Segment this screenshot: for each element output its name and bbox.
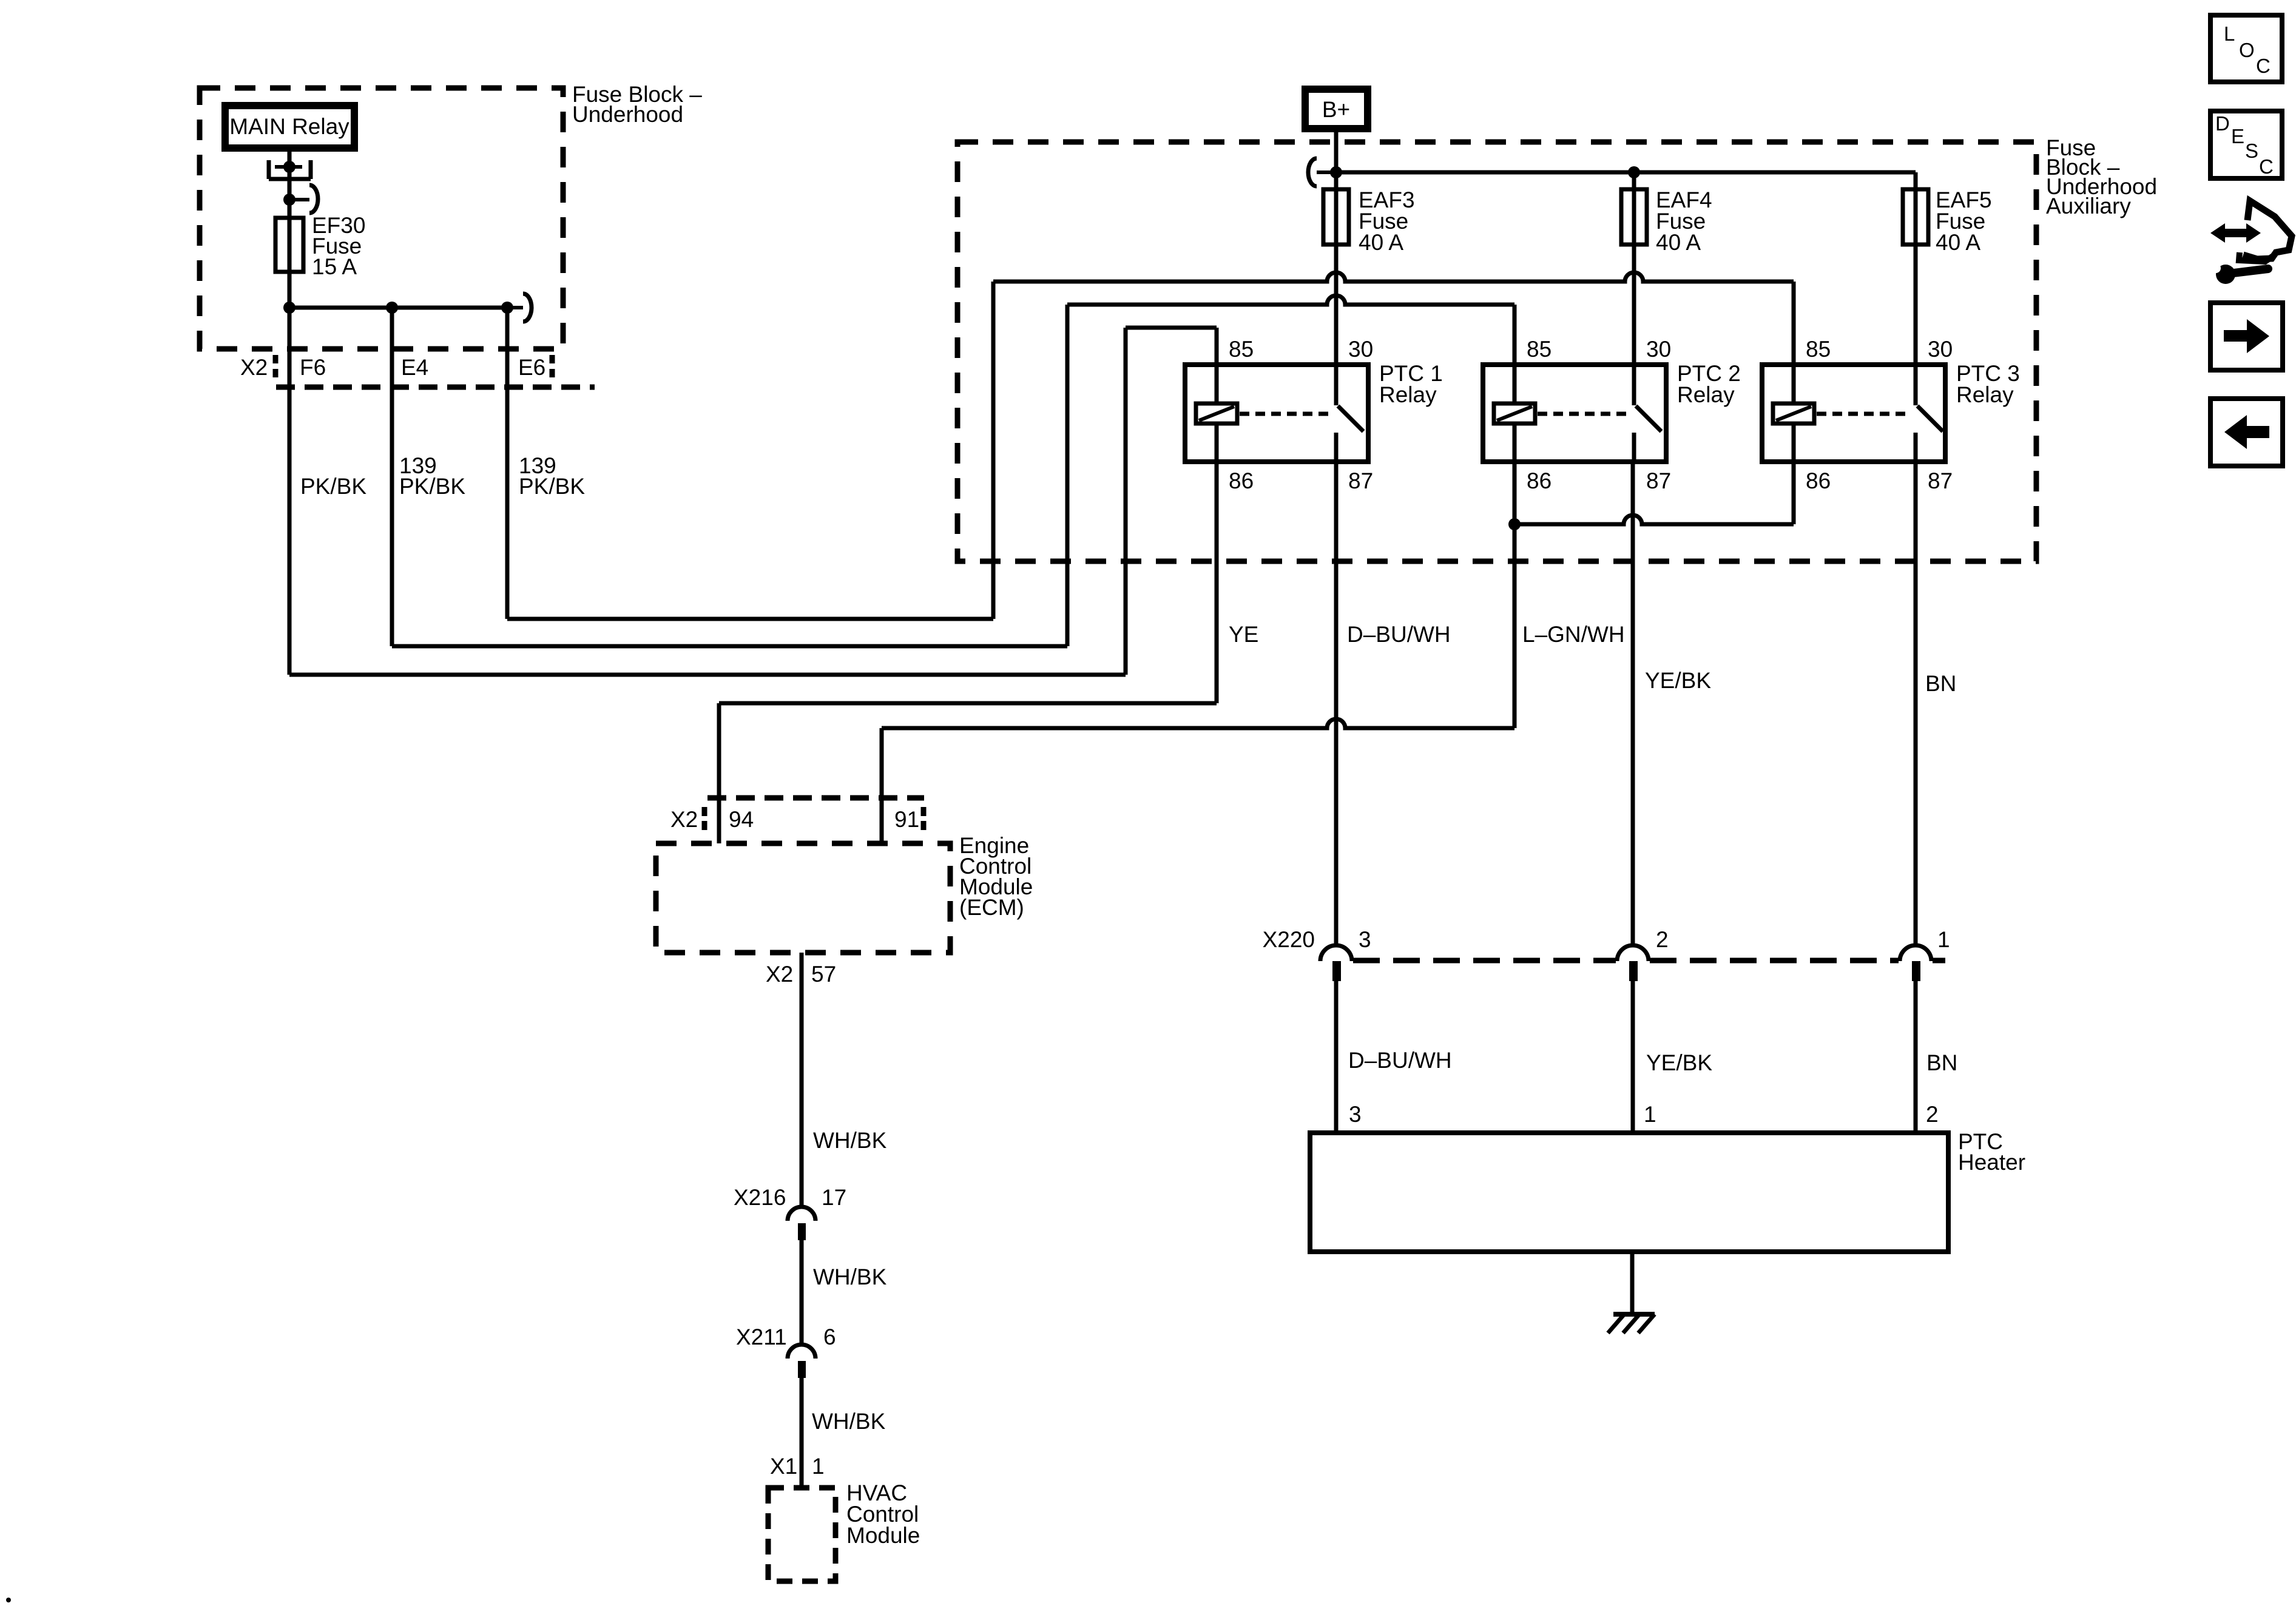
connector X2 left tick bbox=[273, 355, 279, 381]
svg-text:WH/BK: WH/BK bbox=[813, 1264, 887, 1289]
svg-text:17: 17 bbox=[822, 1185, 846, 1210]
svg-text:PK/BK: PK/BK bbox=[300, 474, 366, 499]
svg-text:D–BU/WH: D–BU/WH bbox=[1347, 622, 1451, 647]
relay terminal prongs bbox=[269, 160, 311, 179]
fuse block underhood dashed box bbox=[200, 88, 563, 349]
node B+ branch bbox=[1330, 166, 1342, 178]
relay PTC1 switch bbox=[1334, 365, 1339, 405]
wire stub to inline connector E6 bbox=[507, 306, 523, 309]
connector X2 (ECM) left tick bbox=[702, 807, 707, 831]
wire EAF5 drop bbox=[1914, 172, 1918, 365]
relay PTC1 coil bbox=[1215, 365, 1219, 403]
svg-text:YE/BK: YE/BK bbox=[1645, 668, 1711, 693]
svg-text:91: 91 bbox=[894, 807, 919, 832]
relay PTC2 coil bbox=[1513, 365, 1517, 403]
fuse EAF5 40A bbox=[1903, 189, 1928, 245]
svg-text:1: 1 bbox=[1937, 927, 1950, 952]
svg-text:(ECM): (ECM) bbox=[959, 895, 1024, 920]
MAIN Relay box K bbox=[225, 106, 354, 148]
svg-text:30: 30 bbox=[1646, 337, 1671, 362]
svg-text:YE/BK: YE/BK bbox=[1646, 1050, 1712, 1075]
wire YE horizontal to ECM 94 bbox=[719, 701, 1217, 706]
wire coil feed line to PTC1 85 bbox=[1126, 326, 1217, 330]
wire L-GN/WH from PTC2 86 bbox=[1513, 462, 1517, 728]
wire E4 horizontal run bbox=[392, 644, 1067, 649]
svg-text:L: L bbox=[2224, 22, 2235, 45]
svg-text:85: 85 bbox=[1229, 337, 1254, 362]
svg-text:87: 87 bbox=[1646, 468, 1671, 493]
wire F6 PK/BK vertical bbox=[288, 308, 292, 675]
relay PTC3 linkage dashes bbox=[1817, 412, 1906, 416]
svg-text:2: 2 bbox=[1656, 927, 1669, 952]
node E6 bbox=[501, 302, 513, 314]
connector X2 strip (ECM) dashed line bbox=[707, 795, 924, 801]
svg-text:L–GN/WH: L–GN/WH bbox=[1522, 622, 1625, 647]
wire riser to PTC2 coil feed bbox=[1065, 305, 1070, 646]
svg-text:D–BU/WH: D–BU/WH bbox=[1348, 1048, 1452, 1073]
crossbar with junction bbox=[275, 165, 302, 169]
icon DESC box bbox=[2210, 111, 2282, 178]
svg-text:40 A: 40 A bbox=[1359, 230, 1403, 255]
svg-text:O: O bbox=[2239, 39, 2255, 61]
svg-text:86: 86 bbox=[1229, 468, 1254, 493]
svg-text:85: 85 bbox=[1806, 337, 1831, 362]
svg-text:40 A: 40 A bbox=[1936, 230, 1980, 255]
node on crossbar bbox=[283, 161, 295, 173]
svg-text:E4: E4 bbox=[401, 355, 428, 380]
wire stub to inline connector at B+ bbox=[1317, 170, 1336, 174]
svg-text:E: E bbox=[2231, 125, 2244, 147]
connector X2 right tick bbox=[550, 355, 555, 381]
wire YE/BK from PTC2 87 bbox=[1631, 462, 1635, 945]
svg-text:Underhood: Underhood bbox=[572, 102, 683, 127]
connector X211 pin 6 bbox=[788, 1345, 815, 1359]
svg-text:YE: YE bbox=[1229, 622, 1258, 647]
wire tie 86 of PTC2 to 86 of PTC3 (hop over YE/BK) bbox=[1514, 515, 1794, 524]
node F6 bbox=[283, 302, 295, 314]
wire stub to inline connector bbox=[289, 198, 309, 201]
svg-text:X220: X220 bbox=[1263, 927, 1315, 952]
svg-text:3: 3 bbox=[1359, 927, 1371, 952]
fuse EAF3 40A bbox=[1323, 189, 1349, 245]
node below prongs bbox=[283, 194, 295, 206]
icon wiring tool (double arrow) bbox=[2210, 223, 2261, 243]
svg-text:3: 3 bbox=[1349, 1102, 1362, 1127]
wire E6 horizontal run bbox=[507, 617, 993, 621]
B+ terminal box bbox=[1305, 89, 1368, 129]
wire B+ main feed bbox=[1334, 132, 1339, 365]
connector X216 pin 17 bbox=[788, 1207, 815, 1221]
fuse block underhood auxiliary dashed box bbox=[957, 142, 2036, 561]
wire WH/BK from ECM 57 bbox=[800, 953, 804, 1206]
svg-text:PK/BK: PK/BK bbox=[519, 474, 585, 499]
connector X2 strip (fuse block) bottom dashed line bbox=[276, 385, 595, 390]
wire E6 139 PK/BK vertical bbox=[505, 308, 510, 619]
connector X220 pin 1 bbox=[1900, 945, 1931, 961]
ground bbox=[1613, 1312, 1655, 1317]
wire EAF4 drop bbox=[1632, 172, 1636, 365]
wire drop to ECM pin 91 bbox=[880, 728, 884, 843]
svg-text:Relay: Relay bbox=[1956, 382, 2014, 407]
fuse EAF4 40A bbox=[1621, 189, 1647, 245]
svg-text:F6: F6 bbox=[300, 355, 326, 380]
svg-text:BN: BN bbox=[1925, 671, 1956, 696]
icon back arrow box bbox=[2210, 399, 2283, 466]
svg-text:40 A: 40 A bbox=[1656, 230, 1701, 255]
svg-text:2: 2 bbox=[1926, 1102, 1939, 1127]
svg-text:Auxiliary: Auxiliary bbox=[2046, 194, 2131, 218]
inline connector (female) at B+ bbox=[1308, 158, 1317, 186]
svg-text:Relay: Relay bbox=[1379, 382, 1437, 407]
svg-text:X2: X2 bbox=[766, 962, 793, 987]
connector X220 dashed line bbox=[1353, 958, 1945, 964]
svg-text:WH/BK: WH/BK bbox=[812, 1409, 886, 1434]
svg-text:E6: E6 bbox=[518, 355, 545, 380]
wire BN from PTC3 87 bbox=[1914, 462, 1918, 945]
svg-text:B+: B+ bbox=[1322, 97, 1350, 122]
wire PTC3 85 drop bbox=[1792, 282, 1796, 365]
stray mark bottom left bbox=[6, 1598, 11, 1602]
wire E4 139 PK/BK vertical bbox=[390, 308, 394, 646]
wire coil feed line to PTC3 85 (with hops) bbox=[993, 272, 1794, 282]
relay PTC2 box bbox=[1483, 365, 1666, 462]
svg-text:D: D bbox=[2215, 112, 2230, 135]
wire drop to ECM pin 94 bbox=[717, 703, 721, 843]
svg-text:Relay: Relay bbox=[1677, 382, 1735, 407]
svg-text:X1: X1 bbox=[770, 1454, 797, 1479]
inline connector (female) bbox=[309, 185, 318, 213]
svg-text:PK/BK: PK/BK bbox=[399, 474, 465, 499]
icon wiring tool (component outline) bbox=[2243, 201, 2292, 259]
wire PTC1 85 drop bbox=[1215, 328, 1219, 365]
svg-text:C: C bbox=[2256, 55, 2271, 77]
wire MAIN relay output bbox=[288, 152, 292, 308]
svg-text:BN: BN bbox=[1926, 1050, 1957, 1075]
inline connector (female) at E6 bbox=[523, 294, 532, 322]
svg-text:86: 86 bbox=[1806, 468, 1831, 493]
fuse EF30 15A bbox=[275, 218, 303, 272]
ECM dashed box bbox=[656, 843, 950, 953]
svg-text:WH/BK: WH/BK bbox=[813, 1128, 887, 1153]
svg-text:30: 30 bbox=[1348, 337, 1373, 362]
wire PTC2 85 drop bbox=[1513, 305, 1517, 365]
svg-text:1: 1 bbox=[812, 1454, 825, 1479]
wire riser to PTC1 coil feed bbox=[1124, 328, 1128, 675]
relay PTC3 switch bbox=[1914, 365, 1918, 405]
svg-text:15 A: 15 A bbox=[312, 254, 357, 279]
relay PTC3 coil bbox=[1792, 365, 1796, 403]
relay PTC3 box bbox=[1762, 365, 1945, 462]
svg-text:Heater: Heater bbox=[1958, 1150, 2025, 1175]
svg-text:S: S bbox=[2245, 140, 2258, 162]
svg-text:MAIN Relay: MAIN Relay bbox=[229, 114, 349, 139]
svg-text:X2: X2 bbox=[240, 355, 268, 380]
node EAF4 branch bbox=[1628, 166, 1640, 178]
wire PTC3 86 drop bbox=[1792, 462, 1796, 524]
icon wiring tool (wrench) bbox=[2216, 265, 2235, 284]
svg-text:X2: X2 bbox=[670, 807, 698, 832]
svg-text:57: 57 bbox=[811, 962, 836, 987]
wire YE from PTC1 86 bbox=[1215, 462, 1219, 703]
svg-text:86: 86 bbox=[1527, 468, 1551, 493]
wire branch to EAF4 EAF5 bbox=[1336, 170, 1916, 175]
svg-text:94: 94 bbox=[729, 807, 754, 832]
icon forward arrow box bbox=[2210, 303, 2283, 370]
node E4 bbox=[386, 302, 398, 314]
relay PTC1 linkage dashes bbox=[1240, 412, 1329, 416]
relay PTC1 box bbox=[1185, 365, 1368, 462]
wire coil feed line to PTC2 85 (with hop) bbox=[1067, 295, 1514, 305]
svg-text:85: 85 bbox=[1527, 337, 1551, 362]
wire heater ground stub bbox=[1630, 1252, 1635, 1314]
node PTC2 86 branch bbox=[1508, 518, 1521, 530]
relay PTC2 switch bbox=[1632, 365, 1636, 405]
svg-text:1: 1 bbox=[1644, 1102, 1656, 1127]
wire riser to PTC3 coil feed bbox=[991, 282, 996, 619]
wire D-BU/WH from PTC1 87 bbox=[1334, 462, 1339, 945]
connector X2 (ECM) right tick bbox=[921, 807, 927, 831]
connector X220 pin 3 bbox=[1320, 945, 1352, 961]
wire L-GN/WH horizontal to ECM 91 (hop over D-BU/WH) bbox=[882, 719, 1514, 728]
HVAC control module dashed box bbox=[768, 1488, 836, 1581]
wire WH/BK lower bbox=[800, 1378, 804, 1488]
svg-text:Module: Module bbox=[846, 1523, 920, 1548]
svg-text:C: C bbox=[2259, 155, 2274, 178]
wire WH/BK mid bbox=[800, 1240, 804, 1345]
relay PTC2 linkage dashes bbox=[1538, 412, 1627, 416]
svg-text:87: 87 bbox=[1928, 468, 1953, 493]
wire F6 horizontal run bbox=[289, 673, 1126, 677]
wire bus below EF30 bbox=[289, 306, 507, 310]
svg-text:6: 6 bbox=[823, 1325, 836, 1349]
svg-text:X216: X216 bbox=[734, 1185, 786, 1210]
svg-text:X211: X211 bbox=[736, 1325, 787, 1349]
connector X220 pin 2 bbox=[1617, 945, 1649, 961]
svg-text:30: 30 bbox=[1928, 337, 1953, 362]
PTC heater box bbox=[1310, 1133, 1948, 1252]
svg-text:87: 87 bbox=[1348, 468, 1373, 493]
icon LOC box bbox=[2210, 15, 2282, 82]
